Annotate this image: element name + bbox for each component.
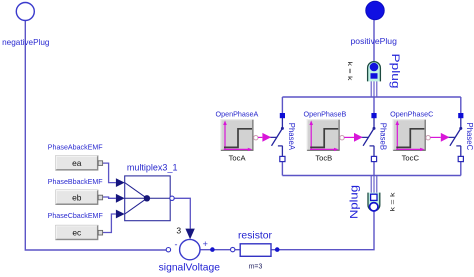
label OpenPhaseB <box>304 110 347 119</box>
svg-text:PhaseBbackEMF: PhaseBbackEMF <box>48 178 103 186</box>
wire top rail to switch PhaseC <box>460 97 462 113</box>
label 3 (signal dimension) <box>176 226 181 236</box>
svg-text:PhaseA: PhaseA <box>287 123 296 151</box>
label TocB <box>315 154 332 163</box>
svg-text:k = k: k = k <box>346 62 353 82</box>
wire negativePlug to signalVoltage.p <box>25 21 166 250</box>
svg-text:positivePlug: positivePlug <box>351 36 398 46</box>
block TocC (BooleanStep) <box>393 119 431 151</box>
svg-text:negativePlug: negativePlug <box>2 38 50 47</box>
label signalVoltage <box>159 262 221 273</box>
block TocB (BooleanStep) <box>307 119 345 151</box>
label Pplug <box>389 54 401 89</box>
connector positivePlug <box>366 1 384 19</box>
wire top rail <box>282 96 460 98</box>
label PhaseC <box>465 123 474 151</box>
label resistor <box>238 231 273 242</box>
label m=3 <box>249 264 263 271</box>
source signalVoltage <box>166 239 208 260</box>
wire TocC.y to PhaseC.control <box>430 136 441 138</box>
wire Nplug to resistor.n <box>271 211 374 250</box>
input triangle signalVoltage.v <box>185 229 194 240</box>
svg-text:PhaseAbackEMF: PhaseAbackEMF <box>48 143 103 151</box>
label PhaseAbackEMF <box>48 143 103 151</box>
wire multiplex3_1.y to signalVoltage.v <box>174 198 190 229</box>
junction node at signalVoltage.n <box>210 247 215 252</box>
junction node at resistor.n <box>275 247 280 252</box>
svg-text:multiplex3_1: multiplex3_1 <box>127 162 178 172</box>
svg-text:PhaseB: PhaseB <box>378 123 387 150</box>
label OpenPhaseC <box>390 110 433 119</box>
svg-text:3: 3 <box>176 226 181 236</box>
svg-text:OpenPhaseB: OpenPhaseB <box>304 110 347 119</box>
svg-text:-: - <box>175 239 178 249</box>
svg-text:OpenPhaseC: OpenPhaseC <box>390 110 433 119</box>
label TocC <box>402 154 420 163</box>
wire signalVoltage.n to resistor.p <box>200 249 240 251</box>
switch PhaseA (ideal opening switch) <box>262 113 285 162</box>
svg-text:TocC: TocC <box>402 154 420 163</box>
plug adapter Pplug (PlugToPins_p) <box>368 62 381 82</box>
svg-text:ea: ea <box>72 158 82 168</box>
label TocA <box>229 154 247 163</box>
label PhaseB <box>378 123 387 150</box>
wire positivePlug to Pplug <box>373 19 375 63</box>
svg-text:m=3: m=3 <box>249 264 263 271</box>
svg-text:TocA: TocA <box>229 154 247 163</box>
wire bus bottom rail to Nplug (3 lines) <box>371 176 377 194</box>
source block eb <box>56 190 103 205</box>
svg-text:k = k: k = k <box>389 192 396 212</box>
label k=k of Pplug <box>346 62 353 82</box>
label PhaseA <box>287 123 296 151</box>
svg-text:PhaseCbackEMF: PhaseCbackEMF <box>48 212 104 220</box>
wire bottom rail <box>282 175 460 177</box>
source block ea <box>56 156 103 171</box>
source block ec <box>56 225 103 240</box>
wire switch PhaseC to bottom rail <box>460 161 462 175</box>
label negativePlug <box>2 38 50 47</box>
wire eb.y to multiplex3_1.u2 <box>102 197 116 198</box>
wire switch PhaseB to bottom rail <box>373 161 375 175</box>
svg-text:ec: ec <box>72 228 81 238</box>
label positivePlug <box>351 36 398 46</box>
wire TocA.y to PhaseA.control <box>258 136 262 138</box>
switch PhaseB (ideal opening switch) <box>354 113 377 162</box>
wire bus Pplug to top rail (3 lines) <box>371 79 377 97</box>
block TocA (BooleanStep) <box>220 119 258 151</box>
label OpenPhaseA <box>216 110 259 119</box>
svg-text:TocB: TocB <box>315 154 332 163</box>
wire ec.y to multiplex3_1.u3 <box>102 214 116 233</box>
svg-text:+: + <box>203 239 208 249</box>
label k=k of Nplug <box>389 192 396 212</box>
wire switch PhaseA to bottom rail <box>281 161 283 175</box>
label PhaseCbackEMF <box>48 212 104 220</box>
multiplexer multiplex3_1 <box>116 176 174 221</box>
svg-text:Nplug: Nplug <box>349 185 361 219</box>
svg-text:OpenPhaseA: OpenPhaseA <box>216 110 259 119</box>
label PhaseBbackEMF <box>48 178 103 186</box>
wire ea.y to multiplex3_1.u1 <box>102 163 116 183</box>
svg-text:resistor: resistor <box>238 231 273 242</box>
svg-text:Pplug: Pplug <box>389 54 401 89</box>
svg-text:PhaseC: PhaseC <box>465 123 474 151</box>
connector negativePlug <box>16 3 34 21</box>
label multiplex3_1 <box>127 162 178 172</box>
wire top rail to switch PhaseA <box>281 97 283 113</box>
plug adapter Nplug (PlugToPins_n) <box>368 193 380 211</box>
resistor <box>231 244 272 256</box>
switch PhaseC (ideal opening switch) <box>441 113 464 162</box>
svg-text:eb: eb <box>72 192 82 202</box>
label Nplug <box>349 185 361 219</box>
svg-text:signalVoltage: signalVoltage <box>159 262 221 273</box>
wire top rail to switch PhaseB <box>373 97 375 113</box>
wire TocB.y to PhaseB.control <box>344 136 354 138</box>
